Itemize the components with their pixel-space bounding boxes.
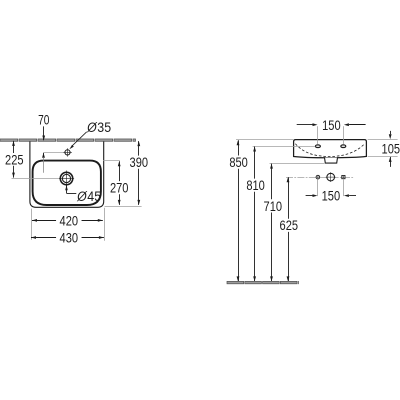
svg-text:270: 270 bbox=[110, 180, 129, 196]
svg-text:Ø: Ø bbox=[76, 188, 87, 204]
svg-text:Ø: Ø bbox=[86, 119, 97, 135]
svg-text:850: 850 bbox=[229, 154, 248, 170]
svg-text:420: 420 bbox=[60, 212, 79, 228]
svg-text:105: 105 bbox=[382, 140, 400, 156]
svg-text:35: 35 bbox=[97, 119, 111, 135]
svg-text:70: 70 bbox=[38, 111, 49, 127]
svg-text:625: 625 bbox=[280, 217, 299, 233]
svg-text:810: 810 bbox=[246, 177, 265, 193]
svg-text:225: 225 bbox=[5, 151, 24, 167]
svg-text:430: 430 bbox=[60, 229, 79, 245]
svg-text:45: 45 bbox=[87, 188, 101, 204]
svg-text:150: 150 bbox=[322, 188, 341, 204]
svg-text:710: 710 bbox=[264, 198, 283, 214]
svg-text:150: 150 bbox=[322, 117, 341, 133]
svg-text:390: 390 bbox=[130, 154, 149, 170]
